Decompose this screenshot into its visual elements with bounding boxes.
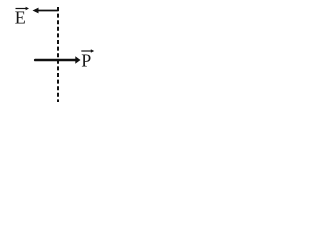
svg-text:P: P	[81, 51, 91, 71]
wire E hat shaft	[16, 8, 27, 10]
dashed line	[57, 7, 59, 102]
node P hat arrowhead	[91, 49, 94, 53]
wire P arrow shaft	[35, 59, 76, 62]
node E arrowhead	[33, 8, 39, 14]
wire P hat shaft	[81, 50, 92, 52]
node P arrowhead	[75, 56, 80, 63]
svg-text:E: E	[15, 8, 26, 28]
wire E arrow shaft	[38, 10, 59, 12]
node E hat arrowhead	[26, 7, 29, 11]
